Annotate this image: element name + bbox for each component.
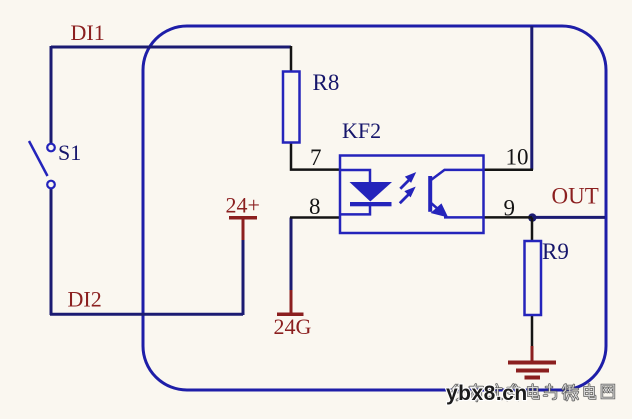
- junction node OUT: [528, 213, 536, 221]
- resistor R8: [283, 72, 300, 143]
- wire S1 bottom to DI2 node: [50, 188, 53, 315]
- wire DI1 to S1 (left vertical): [50, 46, 53, 144]
- switch S1: [29, 141, 55, 188]
- watermark chinese text (light overlay strokes): [451, 385, 614, 402]
- pin stub R9 bottom: [531, 315, 534, 347]
- wire pin8 to 24G: [290, 218, 293, 293]
- pin 7 wire (R8 bottom to KF2): [291, 142, 340, 170]
- svg-text:8: 8: [309, 194, 321, 219]
- power port 24+: [226, 193, 260, 241]
- power port 24G: [274, 290, 312, 339]
- svg-text:10: 10: [506, 145, 529, 170]
- svg-text:S1: S1: [58, 140, 81, 165]
- pin 8 wire: [290, 216, 340, 219]
- svg-text:24+: 24+: [226, 193, 260, 218]
- svg-text:7: 7: [310, 145, 322, 170]
- pin 9 wire: [484, 216, 533, 219]
- watermark chinese text (drawn strokes): [451, 385, 614, 402]
- svg-text:KF2: KF2: [342, 118, 381, 143]
- svg-text:ybx8.cn: ybx8.cn: [446, 382, 528, 405]
- light arrows: [400, 173, 415, 203]
- pin 10 wire: [484, 169, 534, 172]
- wire 24+ vertical: [242, 239, 245, 315]
- svg-text:DI2: DI2: [68, 287, 102, 312]
- wire pin10 up to loop: [530, 26, 533, 170]
- svg-text:R9: R9: [542, 239, 569, 264]
- svg-text:OUT: OUT: [552, 184, 599, 209]
- phototransistor: [430, 170, 483, 218]
- resistor R9: [525, 241, 542, 315]
- wire DI1 net (top horizontal): [51, 46, 291, 49]
- wire OUT net: [532, 216, 605, 219]
- optocoupler U: KF2 box: [340, 156, 484, 234]
- svg-text:DI1: DI1: [71, 20, 105, 45]
- ground symbol: [508, 346, 556, 378]
- pin stub R8 top: [290, 46, 293, 72]
- svg-text:9: 9: [504, 196, 516, 221]
- main loop wire (big rounded rectangle): [143, 26, 606, 390]
- pin stub R9 top: [531, 218, 534, 242]
- LED inside optocoupler: [340, 170, 392, 214]
- wire DI2 net (bottom horizontal): [50, 313, 243, 316]
- svg-text:R8: R8: [313, 70, 340, 95]
- svg-text:24G: 24G: [274, 314, 312, 339]
